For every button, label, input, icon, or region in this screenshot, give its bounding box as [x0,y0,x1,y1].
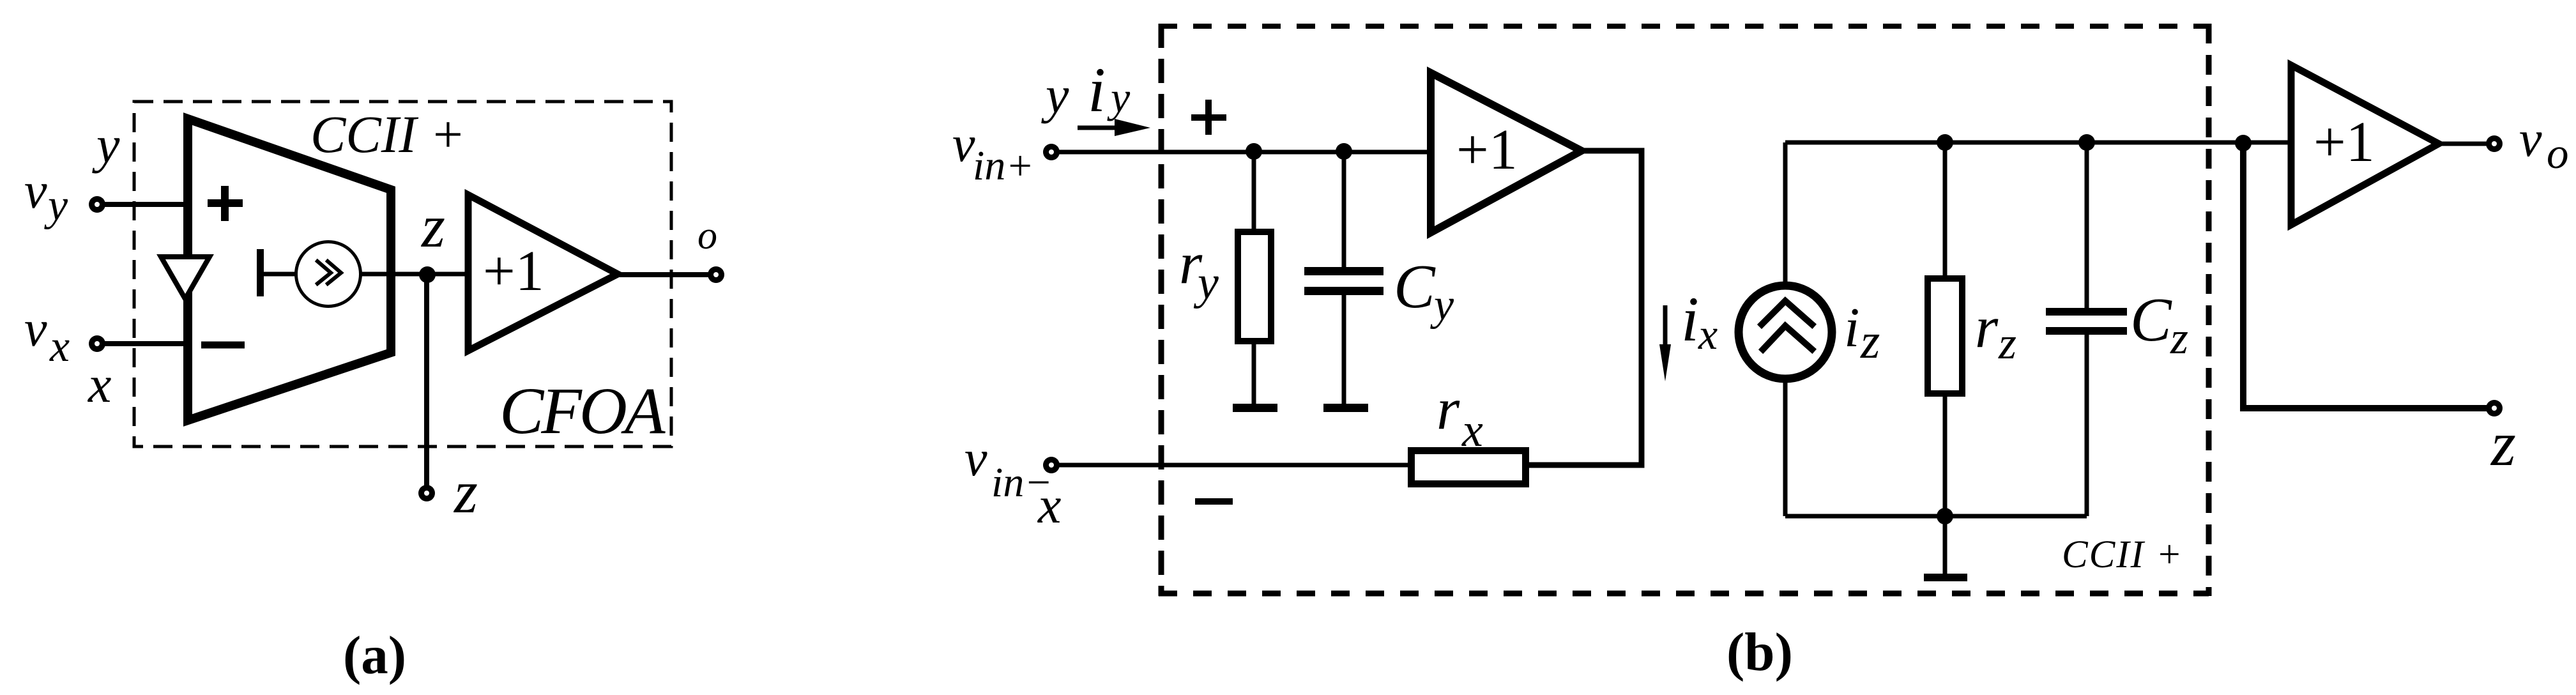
svg-text:CCII +: CCII + [310,105,466,164]
plus sign inside box (b) [1191,100,1226,135]
wire rz bottom [1943,397,1947,516]
svg-text:z: z [2170,312,2188,363]
wire v_y [101,202,188,207]
svg-text:x: x [49,322,70,371]
wire Cy bottom [1342,295,1346,404]
terminal v_in- [1043,457,1060,473]
svg-text:z: z [420,192,445,260]
wire z down [424,275,429,487]
svg-text:o: o [697,214,717,257]
ground ry [1233,404,1277,412]
wire ry bottom [1252,344,1256,404]
svg-text:+1: +1 [483,240,544,303]
svg-text:v: v [24,301,47,357]
wire buffer2 to v_o [2439,142,2487,146]
wire z drop [2243,143,2487,408]
svg-text:z: z [453,458,478,526]
terminal z bottom [418,485,435,501]
resistor r_y [1238,232,1271,341]
svg-text:i: i [1844,297,1859,359]
junction dot cz [2078,134,2095,151]
wire cz top [2085,142,2089,308]
svg-text:i: i [1681,284,1699,355]
voltage follower triangle symbol on left edge [161,257,210,299]
svg-text:y: y [1041,66,1069,124]
svg-text:z: z [2490,408,2516,479]
ground Cy [1323,404,1368,412]
svg-text:x: x [1698,310,1718,358]
svg-text:y: y [1430,280,1454,330]
svg-text:CCII +: CCII + [2062,533,2183,576]
dashed box CFOA boundary [134,102,671,447]
svg-text:y: y [92,116,120,174]
minus sign inside box (b) [1195,498,1233,505]
terminal v_in+ [1043,144,1060,160]
CCII trapezoid block U1 [188,119,391,420]
svg-text:+1: +1 [2313,111,2375,174]
svg-text:CFOA: CFOA [499,374,666,448]
wire buffer out to corner [1529,151,1642,465]
svg-text:(a): (a) [343,625,406,685]
dashed box CCII+ boundary [1159,24,2209,596]
current mirror wall bar [257,249,264,296]
wire v_in+ row [1058,150,1431,155]
wire v_in- row [1058,463,1408,468]
svg-text:y: y [1107,73,1131,121]
z rail top [1785,141,2243,145]
terminal v_o [2486,135,2503,152]
buffer U2 +1 triangle (a) [468,195,618,351]
svg-text:x: x [1461,404,1483,457]
wire v_x [101,341,188,346]
svg-text:x: x [88,355,111,413]
arrow i_y [1078,126,1124,130]
svg-text:(b): (b) [1726,622,1793,682]
wire ry top [1252,151,1256,229]
chevrons inside circle [317,261,341,284]
wire Cy top [1342,151,1346,271]
resistor r_x [1412,451,1526,484]
svg-text:r: r [1975,294,1999,360]
bottom rail [1785,514,2087,519]
svg-text:z: z [1998,317,2016,369]
terminal o [708,266,724,283]
ground bar (b) [1924,574,1967,581]
wire rz top [1943,142,1947,279]
terminal y (v_y input) [89,196,105,213]
svg-text:x: x [1037,476,1061,534]
buffer U3 +1 triangle (b input) [1431,73,1581,233]
wire iz bottom [1783,379,1788,516]
minus label inside trapezoid [201,342,245,349]
current mirror circle [296,242,361,307]
junction dot node y1 [1246,143,1262,160]
svg-text:C: C [1394,252,1436,321]
svg-text:v: v [24,163,47,219]
svg-text:i: i [1088,54,1106,125]
svg-text:z: z [1860,313,1880,369]
svg-text:v: v [952,116,975,172]
svg-text:C: C [2130,286,2172,354]
svg-text:v: v [964,431,987,487]
wire iz top [1783,142,1788,286]
node z dot [419,266,436,283]
svg-text:v: v [2519,111,2542,167]
junction dot node y2 [1336,143,1352,160]
wire rail to buffer2 [2087,141,2293,145]
wire buffer to o [618,272,710,277]
arrow i_x [1663,305,1668,348]
svg-text:r: r [1437,376,1460,442]
svg-text:in+: in+ [973,142,1034,189]
current source i_z circle [1739,286,1832,379]
svg-text:y: y [44,181,68,230]
resistor r_z [1928,279,1962,393]
plus label inside trapezoid [208,186,243,221]
wire wall to circle [260,272,297,277]
junction dot rz [1937,134,1953,151]
capacitor C_y plates [1304,267,1383,275]
wire circle to z node [360,272,469,277]
svg-text:o: o [2547,129,2569,178]
junction dot z out [2235,135,2252,151]
chevrons up inside i_z [1762,301,1812,349]
wire cz bottom [2085,335,2089,516]
svg-text:+1: +1 [1456,118,1518,181]
buffer U4 +1 triangle (output) [2291,65,2439,225]
ground stub [1943,516,1947,574]
capacitor C_z plates [2046,308,2127,316]
terminal z (b) [2486,400,2503,416]
junction dot ground [1937,508,1953,524]
terminal x (v_x input) [89,335,105,352]
